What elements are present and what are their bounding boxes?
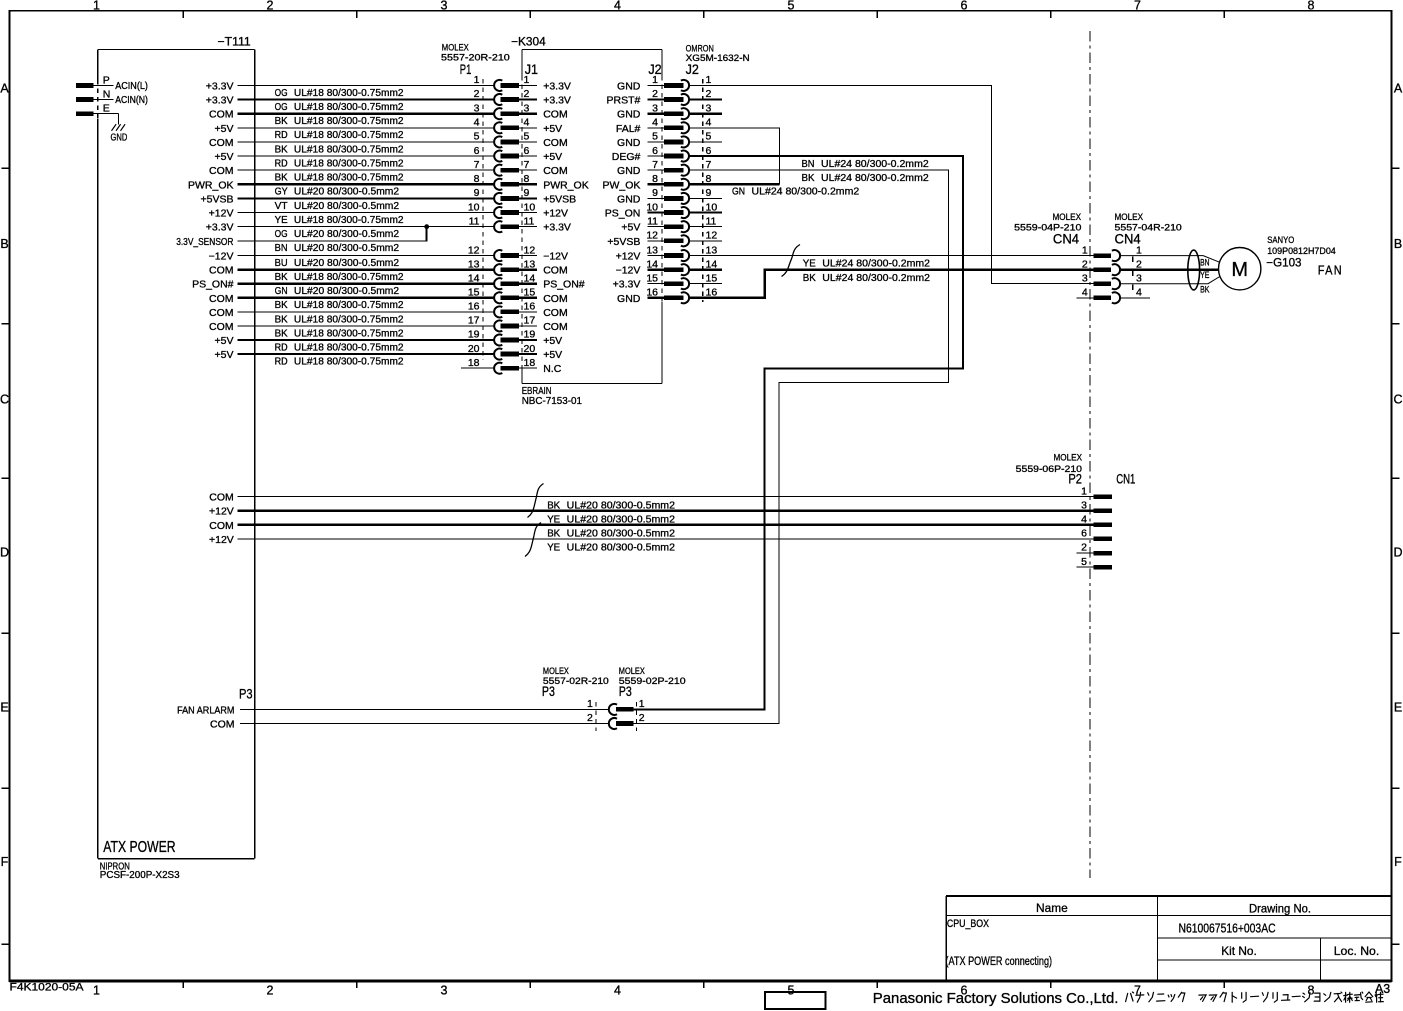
connector J1 pin 12 xyxy=(519,244,537,256)
wire label YE UL#20 80/300-0.5mm2 xyxy=(547,542,675,554)
connector OMRON J2 pin 10 stub xyxy=(690,201,723,213)
svg-text:FAN ARLARM: FAN ARLARM xyxy=(177,704,234,716)
svg-text:UL#20 80/300-0.5mm2: UL#20 80/300-0.5mm2 xyxy=(294,285,399,297)
svg-text:UL#24 80/300-0.2mm2: UL#24 80/300-0.2mm2 xyxy=(822,272,930,284)
connector OMRON J2 pin 4 stub xyxy=(690,117,723,129)
wire label BK UL#18 80/300-0.75mm2 xyxy=(275,299,404,311)
connector OMRON J2 pin 13 stub xyxy=(690,244,723,256)
connector P1 pin 3 xyxy=(474,102,519,119)
svg-text:2: 2 xyxy=(267,984,274,998)
wire label OG UL#18 80/300-0.75mm2 xyxy=(275,101,404,113)
frame column numbers bottom xyxy=(93,984,1315,998)
svg-text:UL#24 80/300-0.2mm2: UL#24 80/300-0.2mm2 xyxy=(821,172,929,184)
svg-text:UL#18 80/300-0.75mm2: UL#18 80/300-0.75mm2 xyxy=(294,87,404,99)
connector P1 pin 12 xyxy=(468,244,519,261)
svg-text:109P0812H7D04: 109P0812H7D04 xyxy=(1267,246,1336,257)
svg-text:9: 9 xyxy=(652,187,658,199)
svg-text:F4K1020-05A: F4K1020-05A xyxy=(10,982,85,994)
connector P1 pin 13 xyxy=(468,258,519,275)
svg-text:7: 7 xyxy=(652,159,658,171)
svg-text:Drawing No.: Drawing No. xyxy=(1249,902,1311,916)
connector OMRON J2 pin 15 stub xyxy=(690,272,723,284)
wire label BK UL#20 80/300-0.5mm2 xyxy=(547,528,675,540)
svg-text:10: 10 xyxy=(468,201,480,213)
connector J1 pin 15 xyxy=(519,287,537,299)
svg-text:(ATX POWER connecting): (ATX POWER connecting) xyxy=(946,956,1053,968)
svg-text:UL#20 80/300-0.5mm2: UL#20 80/300-0.5mm2 xyxy=(567,499,675,511)
svg-text:11: 11 xyxy=(706,215,717,227)
svg-text:UL#20 80/300-0.5mm2: UL#20 80/300-0.5mm2 xyxy=(294,242,399,254)
svg-text:Panasonic Factory Solutions Co: Panasonic Factory Solutions Co.,Ltd. xyxy=(873,991,1119,1007)
svg-text:13: 13 xyxy=(468,258,480,270)
svg-text:+5V: +5V xyxy=(543,335,562,347)
svg-text:6: 6 xyxy=(524,145,530,157)
twisted pair mark fan wires xyxy=(782,245,801,277)
svg-text:BK: BK xyxy=(802,172,815,184)
fan cable bundle xyxy=(1188,250,1200,290)
connector CN4 dashed line xyxy=(1132,257,1134,298)
svg-text:2: 2 xyxy=(474,88,480,100)
connector J2 pin 8 left xyxy=(648,173,690,190)
connector OMRON J2 pin 12 stub xyxy=(690,230,723,242)
svg-text:−T111: −T111 xyxy=(218,36,251,48)
ground symbol xyxy=(112,124,126,131)
svg-text:BK: BK xyxy=(275,327,288,339)
connector OMRON J2 pin 5 stub xyxy=(690,131,723,143)
svg-text:18: 18 xyxy=(468,357,480,369)
wire FAN ARLARM to P3 pin1 xyxy=(240,708,609,710)
wire J2 pin13 +12V to CN4 pin1 xyxy=(690,255,1094,257)
wire +5VSB to P1 pin row 9 xyxy=(238,197,495,199)
svg-text:P3: P3 xyxy=(619,684,632,699)
svg-text:A: A xyxy=(0,81,9,95)
connector P3 left dashed line xyxy=(595,702,597,731)
svg-text:6: 6 xyxy=(474,145,480,157)
svg-text:8: 8 xyxy=(524,173,530,185)
wire label BN UL#20 80/300-0.5mm2 xyxy=(275,242,400,254)
svg-text:COM: COM xyxy=(543,109,568,121)
svg-text:ACIN(L): ACIN(L) xyxy=(115,81,148,92)
svg-text:UL#18 80/300-0.75mm2: UL#18 80/300-0.75mm2 xyxy=(294,158,404,170)
wire COM to P1 pin row 3 xyxy=(238,113,495,115)
wire label BK UL#18 80/300-0.75mm2 xyxy=(275,115,404,127)
wire label BK UL#18 80/300-0.75mm2 xyxy=(275,143,404,155)
wire COM to P1 pin row 16 xyxy=(238,311,495,313)
svg-text:N: N xyxy=(103,88,111,100)
connector P1 pin 18 xyxy=(468,357,519,374)
connector OMRON J2 pin 1 stub xyxy=(690,74,723,86)
svg-text:UL#24 80/300-0.2mm2: UL#24 80/300-0.2mm2 xyxy=(822,258,930,270)
svg-text:3: 3 xyxy=(1136,272,1142,284)
connector P1 pin 5 xyxy=(474,131,519,148)
svg-text:UL#20 80/300-0.5mm2: UL#20 80/300-0.5mm2 xyxy=(567,513,675,525)
svg-text:UL#18 80/300-0.75mm2: UL#18 80/300-0.75mm2 xyxy=(294,172,404,184)
svg-text:7: 7 xyxy=(706,159,712,171)
svg-text:15: 15 xyxy=(646,272,658,284)
connector P1 pin 15 xyxy=(468,287,519,304)
svg-text:GND: GND xyxy=(617,165,641,177)
svg-text:−12V: −12V xyxy=(543,251,568,263)
svg-text:1: 1 xyxy=(93,0,100,13)
svg-text:+12V: +12V xyxy=(209,208,234,220)
frame column ticks top xyxy=(183,11,1224,18)
svg-text:GND: GND xyxy=(617,109,641,121)
connector J2 pin 13 left xyxy=(646,244,689,261)
wire 3.3V_SENSOR xyxy=(238,227,427,242)
wire label RD UL#18 80/300-0.75mm2 xyxy=(275,129,404,141)
connector P1 pin 2 xyxy=(474,88,519,105)
connector P1 pin 8 xyxy=(474,173,519,190)
svg-text:12: 12 xyxy=(524,244,536,256)
title block xyxy=(946,896,1391,981)
svg-text:F: F xyxy=(1394,855,1402,869)
svg-text:BN: BN xyxy=(1200,258,1209,269)
connector OMRON J2 pin 16 stub xyxy=(690,287,723,299)
wire P2 pin 4 xyxy=(238,524,1094,526)
connector J1 pin 18 xyxy=(519,357,537,369)
svg-text:GN: GN xyxy=(732,186,745,198)
svg-text:GND: GND xyxy=(111,133,128,144)
svg-text:J2: J2 xyxy=(686,62,699,77)
svg-text:BN: BN xyxy=(802,158,815,170)
svg-text:PWR_OK: PWR_OK xyxy=(543,179,589,191)
svg-text:4: 4 xyxy=(474,117,480,129)
wire label RD UL#18 80/300-0.75mm2 xyxy=(275,356,404,368)
fan motor -G103 xyxy=(1219,248,1261,290)
svg-text:OG: OG xyxy=(275,87,288,99)
svg-text:BK: BK xyxy=(803,272,816,284)
svg-text:UL#18 80/300-0.75mm2: UL#18 80/300-0.75mm2 xyxy=(294,115,404,127)
wire P2 pin 1 xyxy=(238,496,1094,498)
connector J2 pin 15 left xyxy=(646,272,689,289)
connector P1 header MOLEX 5557-20R-210 xyxy=(441,42,510,77)
svg-text:17: 17 xyxy=(468,315,480,327)
svg-text:CN4: CN4 xyxy=(1053,231,1080,246)
svg-text:1: 1 xyxy=(587,698,593,710)
svg-text:COM: COM xyxy=(209,165,234,177)
svg-text:B: B xyxy=(0,237,8,251)
connector CN4 right pin 4 xyxy=(1121,287,1150,299)
svg-text:1: 1 xyxy=(706,74,712,86)
svg-text:+5V: +5V xyxy=(621,222,640,234)
svg-text:P: P xyxy=(103,74,110,86)
connector OMRON J2 pin 9 stub xyxy=(690,187,723,199)
svg-text:−12V: −12V xyxy=(616,265,641,277)
svg-text:COM: COM xyxy=(543,293,568,305)
svg-text:+5V: +5V xyxy=(543,151,562,163)
svg-text:N.C: N.C xyxy=(543,363,562,375)
svg-text:OG: OG xyxy=(275,228,288,240)
svg-text:UL#24 80/300-0.2mm2: UL#24 80/300-0.2mm2 xyxy=(821,158,929,170)
svg-text:COM: COM xyxy=(543,265,568,277)
svg-text:YE: YE xyxy=(547,513,560,525)
ATX power supply box -T111 xyxy=(98,49,255,858)
svg-text:19: 19 xyxy=(468,329,480,341)
svg-text:GND: GND xyxy=(617,80,641,92)
svg-text:Name: Name xyxy=(1036,901,1068,915)
svg-text:+3.3V: +3.3V xyxy=(206,222,234,234)
AC input terminal P xyxy=(76,74,113,88)
svg-text:UL#18 80/300-0.75mm2: UL#18 80/300-0.75mm2 xyxy=(294,271,404,283)
svg-text:+3.3V: +3.3V xyxy=(543,80,571,92)
svg-text:4: 4 xyxy=(1081,514,1087,526)
svg-text:3: 3 xyxy=(706,102,712,114)
connector CN4 pin 2 xyxy=(1082,258,1120,275)
wire label BK UL#24 80/300-0.2mm2 xyxy=(802,172,929,184)
svg-text:+12V: +12V xyxy=(209,506,234,518)
wire J2 pin7 GND to P3 pin2 xyxy=(634,170,949,723)
svg-text:BK: BK xyxy=(1200,285,1210,296)
svg-text:UL#18 80/300-0.75mm2: UL#18 80/300-0.75mm2 xyxy=(294,129,404,141)
svg-text:BK: BK xyxy=(275,299,288,311)
svg-text:P2: P2 xyxy=(1068,472,1082,487)
connector P1 pin 11 xyxy=(469,215,519,232)
svg-text:5: 5 xyxy=(652,131,658,143)
wire label GN UL#20 80/300-0.5mm2 xyxy=(275,285,400,297)
connector J1 pin 4 xyxy=(519,117,537,129)
svg-text:UL#18 80/300-0.75mm2: UL#18 80/300-0.75mm2 xyxy=(294,101,404,113)
connector J2 pin 7 left xyxy=(648,159,690,176)
connector J1 pin 9 xyxy=(519,187,537,199)
AC input terminal E xyxy=(76,103,118,117)
svg-text:YE: YE xyxy=(1200,270,1209,281)
svg-text:3: 3 xyxy=(652,102,658,114)
connector J1 pin 11 xyxy=(519,215,537,227)
connector J2 pin 10 left xyxy=(646,201,689,218)
connector P2/CN1 pin 1 xyxy=(1081,485,1112,499)
wire label BU UL#20 80/300-0.5mm2 xyxy=(275,257,400,269)
connector P1 pin 16 xyxy=(468,301,519,318)
svg-text:BU: BU xyxy=(275,257,288,269)
svg-text:BK: BK xyxy=(547,528,560,540)
connector J1 pin 3 xyxy=(519,102,537,114)
svg-text:COM: COM xyxy=(543,321,568,333)
svg-text:RD: RD xyxy=(275,341,288,353)
svg-text:−G103: −G103 xyxy=(1266,258,1301,270)
svg-text:Kit No.: Kit No. xyxy=(1221,944,1257,958)
svg-text:1: 1 xyxy=(652,74,658,86)
stamp box xyxy=(765,992,825,1009)
connector J2 pin 14 left xyxy=(646,258,689,275)
svg-text:UL#20 80/300-0.5mm2: UL#20 80/300-0.5mm2 xyxy=(294,200,399,212)
svg-text:UL#18 80/300-0.75mm2: UL#18 80/300-0.75mm2 xyxy=(294,214,404,226)
svg-text:OG: OG xyxy=(275,101,288,113)
svg-text:7: 7 xyxy=(1134,0,1141,13)
svg-text:COM: COM xyxy=(209,293,234,305)
svg-text:+12V: +12V xyxy=(209,534,234,546)
svg-text:C: C xyxy=(1393,392,1402,406)
connector P3 pin 1 xyxy=(587,698,645,715)
wire label BN UL#24 80/300-0.2mm2 xyxy=(802,158,929,170)
wire COM to P1 pin row 13 xyxy=(238,269,495,271)
svg-text:BN: BN xyxy=(275,242,288,254)
frame row letters right xyxy=(1393,81,1402,869)
connector CN4 right pin 3 xyxy=(1136,272,1142,284)
wire label YE UL#18 80/300-0.75mm2 xyxy=(275,214,404,226)
svg-text:UL#18 80/300-0.75mm2: UL#18 80/300-0.75mm2 xyxy=(294,341,404,353)
connector J1 pin 2 xyxy=(519,88,537,100)
connector J1 pin 7 xyxy=(519,159,537,171)
svg-text:+3.3V: +3.3V xyxy=(206,80,234,92)
svg-text:N610067516+003AC: N610067516+003AC xyxy=(1179,921,1276,936)
svg-text:YE: YE xyxy=(275,214,288,226)
connector J2 pin 4 left xyxy=(648,117,690,134)
svg-text:13: 13 xyxy=(524,258,536,270)
svg-text:P1: P1 xyxy=(460,62,472,77)
svg-text:8: 8 xyxy=(1308,984,1315,998)
svg-text:D: D xyxy=(0,545,9,559)
svg-text:BK: BK xyxy=(275,313,288,325)
svg-text:BK: BK xyxy=(275,115,288,127)
connector J2 pin 16 left xyxy=(646,287,689,304)
svg-text:5: 5 xyxy=(524,131,530,143)
connector CN4 pin 4 xyxy=(1076,287,1120,304)
svg-text:B: B xyxy=(1394,237,1402,251)
svg-text:6: 6 xyxy=(1081,528,1087,540)
wire J2 pin6 DEG# to P3 pin1 xyxy=(634,156,963,709)
connector CN4 right pin 2 xyxy=(1136,258,1142,270)
svg-text:COM: COM xyxy=(209,492,234,504)
svg-text:F: F xyxy=(1,855,9,869)
connector P2/CN1 pin 4 xyxy=(1081,514,1112,528)
svg-text:CPU_BOX: CPU_BOX xyxy=(947,918,990,930)
svg-text:10: 10 xyxy=(646,201,658,213)
connector P1 pin 19 xyxy=(468,329,519,346)
svg-text:10: 10 xyxy=(524,201,536,213)
connector OMRON J2 pin 7 stub xyxy=(690,159,723,171)
svg-text:+12V: +12V xyxy=(543,208,568,220)
connector P2/CN1 pin 6 xyxy=(1081,528,1112,542)
svg-text:2: 2 xyxy=(639,712,645,724)
svg-text:13: 13 xyxy=(706,244,718,256)
connector P1 pin 14 xyxy=(468,272,519,289)
svg-text:FAN: FAN xyxy=(1318,264,1343,278)
wire COM to P1 pin row 7 xyxy=(238,169,495,171)
connector J1 pin 10 xyxy=(519,201,537,213)
connector P1 dashed housing line xyxy=(482,79,484,360)
connector J1 pin 8 xyxy=(519,173,537,185)
connector J1 pin 16 xyxy=(519,301,537,313)
svg-text:3.3V_SENSOR: 3.3V_SENSOR xyxy=(176,236,234,248)
svg-text:9: 9 xyxy=(524,187,530,199)
svg-text:4: 4 xyxy=(614,0,621,13)
svg-text:BK: BK xyxy=(547,499,560,511)
connector J2 pin 2 left xyxy=(648,88,690,105)
connector OMRON J2 pin 8 stub xyxy=(690,173,723,185)
svg-text:A: A xyxy=(1394,81,1403,95)
svg-text:RD: RD xyxy=(275,129,288,141)
wire P2 pin 3 xyxy=(238,510,1094,512)
connector J1 pin 5 xyxy=(519,131,537,143)
connector P1 pin 10 xyxy=(468,201,519,218)
svg-text:GY: GY xyxy=(275,186,288,198)
svg-text:+3.3V: +3.3V xyxy=(613,279,641,291)
svg-text:11: 11 xyxy=(647,215,658,227)
svg-text:5: 5 xyxy=(788,0,795,13)
svg-text:GND: GND xyxy=(617,193,641,205)
svg-text:UL#20 80/300-0.5mm2: UL#20 80/300-0.5mm2 xyxy=(567,542,675,554)
wire COM to P1 pin row 5 xyxy=(238,141,495,143)
svg-text:−K304: −K304 xyxy=(511,37,546,49)
svg-text:PWR_OK: PWR_OK xyxy=(188,179,234,191)
svg-text:PS_ON#: PS_ON# xyxy=(192,279,234,291)
svg-text:UL#20 80/300-0.5mm2: UL#20 80/300-0.5mm2 xyxy=(567,528,675,540)
svg-text:UL#24 80/300-0.2mm2: UL#24 80/300-0.2mm2 xyxy=(752,186,860,198)
svg-text:COM: COM xyxy=(209,307,234,319)
connector J1 pin 14 xyxy=(519,272,537,284)
svg-text:12: 12 xyxy=(468,244,480,256)
svg-text:GND: GND xyxy=(617,137,641,149)
svg-text:8: 8 xyxy=(652,173,658,185)
wire label RD UL#18 80/300-0.75mm2 xyxy=(275,341,404,353)
svg-text:COM: COM xyxy=(209,109,234,121)
svg-text:10: 10 xyxy=(706,201,718,213)
wire +3.3V to P1 pin row 2 xyxy=(238,98,495,100)
wire +3.3V to P1 pin row 11 xyxy=(238,226,495,228)
connector J1 pin 17 xyxy=(519,315,537,327)
svg-text:9: 9 xyxy=(474,187,480,199)
connector CN4 pin 1 xyxy=(1082,244,1120,261)
wire PS_ON# to P1 pin row 14 xyxy=(238,283,495,285)
svg-text:16: 16 xyxy=(646,287,658,299)
svg-text:3: 3 xyxy=(441,984,448,998)
svg-text:15: 15 xyxy=(468,287,480,299)
svg-text:UL#20 80/300-0.5mm2: UL#20 80/300-0.5mm2 xyxy=(294,257,399,269)
connector J2 pin 6 left xyxy=(648,145,689,162)
wire +3.3V to P1 pin row 1 xyxy=(238,84,495,86)
svg-text:E: E xyxy=(103,103,110,115)
wire +5V to P1 pin row 19 xyxy=(238,353,495,355)
panel boundary centerline xyxy=(1089,31,1091,878)
svg-text:14: 14 xyxy=(706,258,718,270)
svg-text:UL#18 80/300-0.75mm2: UL#18 80/300-0.75mm2 xyxy=(294,327,404,339)
svg-text:Loc. No.: Loc. No. xyxy=(1334,944,1380,958)
connector P3 header MOLEX 5559-02P-210 xyxy=(619,666,686,699)
svg-text:2: 2 xyxy=(587,712,593,724)
connector P1 pin 20 xyxy=(468,343,519,360)
connector J1 pin 6 xyxy=(519,145,537,157)
wire PWR_OK to P1 pin row 8 xyxy=(238,183,495,185)
svg-text:20: 20 xyxy=(524,343,536,355)
connector P1 pin 1 xyxy=(474,74,519,91)
svg-text:ACIN(N): ACIN(N) xyxy=(115,95,148,106)
wire label OG UL#18 80/300-0.75mm2 xyxy=(275,87,404,99)
connector J1 pin 13 xyxy=(519,258,537,270)
connector OMRON J2 pin 3 stub xyxy=(690,102,723,114)
svg-text:9: 9 xyxy=(706,187,712,199)
svg-text:COM: COM xyxy=(209,321,234,333)
svg-text:4: 4 xyxy=(524,117,530,129)
svg-text:PCSF-200P-X2S3: PCSF-200P-X2S3 xyxy=(100,870,180,881)
connector J2 pin 11 left xyxy=(647,215,689,232)
svg-text:BK: BK xyxy=(275,143,288,155)
svg-text:+3.3V: +3.3V xyxy=(543,222,571,234)
svg-text:+5V: +5V xyxy=(543,123,562,135)
svg-text:NBC-7153-01: NBC-7153-01 xyxy=(522,395,582,407)
wire P1 pin18 N.C stub xyxy=(461,367,494,369)
svg-text:RD: RD xyxy=(275,356,288,368)
svg-text:5: 5 xyxy=(1081,556,1087,568)
connector J2 pin 5 left xyxy=(648,131,690,148)
svg-text:1: 1 xyxy=(1081,485,1087,497)
svg-text:4: 4 xyxy=(1082,287,1088,299)
connector P1 pin 17 xyxy=(468,315,519,332)
wire label YE UL#20 80/300-0.5mm2 xyxy=(547,513,675,525)
connector P1 pin 6 xyxy=(474,145,519,162)
connector J2 pin 1 left xyxy=(648,74,690,91)
connector OMRON J2 pin 6 stub xyxy=(690,145,723,157)
wire label BK UL#18 80/300-0.75mm2 xyxy=(275,327,404,339)
